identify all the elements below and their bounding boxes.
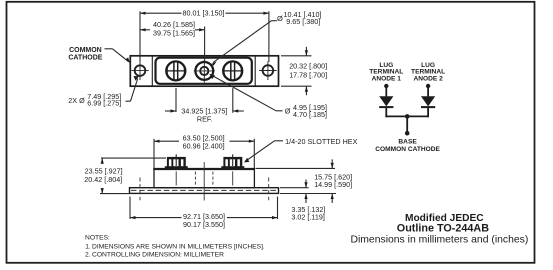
svg-text:20.32 [.800]: 20.32 [.800] xyxy=(289,61,327,70)
wire anode1 to D1 xyxy=(385,86,387,96)
svg-text:90.17 [3.550]: 90.17 [3.550] xyxy=(183,220,225,229)
dimension 34.925 REF xyxy=(165,88,244,113)
dimension 63.50 / 60.96 xyxy=(154,139,254,168)
junction node xyxy=(405,114,410,119)
dimension 15.75 / 14.99 xyxy=(256,159,337,203)
leader 1/4-20 SLOTTED HEX xyxy=(244,141,283,163)
body (side view) xyxy=(154,169,254,188)
center line screw 2 xyxy=(232,171,234,185)
svg-text:Ø: Ø xyxy=(285,107,291,116)
svg-text:2X Ø: 2X Ø xyxy=(68,96,85,105)
base terminal node xyxy=(405,131,410,136)
hidden line center hole left xyxy=(194,172,196,187)
dimension 80.01 [3.150] xyxy=(140,11,269,62)
leader dia 4.95/4.70 to center hole xyxy=(209,74,282,111)
base plate (side view) xyxy=(130,188,279,194)
svg-text:ANODE 2: ANODE 2 xyxy=(413,75,443,82)
hidden line inside base plate xyxy=(131,189,277,191)
svg-text:6.99 [.275]: 6.99 [.275] xyxy=(87,99,121,108)
svg-text:CATHODE: CATHODE xyxy=(68,55,102,62)
terminal node anode 2 xyxy=(426,84,430,88)
package outer body (top view) xyxy=(130,56,278,86)
diode D2 xyxy=(421,96,435,108)
diode D1 xyxy=(379,96,393,108)
svg-text:DIMENSIONS ARE SHOWN IN MILLIM: DIMENSIONS ARE SHOWN IN MILLIMETERS [INC… xyxy=(92,243,265,250)
dimension 3.35 / 3.02 xyxy=(280,180,309,204)
svg-text:COMMON CATHODE: COMMON CATHODE xyxy=(375,146,440,153)
svg-text:BASE: BASE xyxy=(398,139,417,146)
center cathode terminal xyxy=(194,60,215,83)
center line mounting hole right xyxy=(268,178,270,201)
leader 2X dia 7.49/6.99 to left hole xyxy=(126,76,139,101)
wire D2 to bus xyxy=(427,108,429,117)
svg-text:14.99 [.590]: 14.99 [.590] xyxy=(314,180,352,189)
svg-text:1.: 1. xyxy=(85,243,91,250)
svg-text:Outline TO-244AB: Outline TO-244AB xyxy=(397,223,489,235)
svg-text:9.65 [.380]: 9.65 [.380] xyxy=(286,17,320,26)
mounting hole left xyxy=(131,61,148,80)
wire anode2 to D2 xyxy=(427,86,429,96)
hidden line center hole right xyxy=(212,172,214,187)
terminal node anode 1 xyxy=(384,84,388,88)
svg-text:17.78 [.700]: 17.78 [.700] xyxy=(289,70,327,79)
center line package xyxy=(203,162,205,201)
svg-text:NOTES:: NOTES: xyxy=(85,235,110,242)
mounting hole right xyxy=(259,61,276,80)
body top edge thick xyxy=(153,168,255,170)
nut 1 (1/4-20 slotted hex) xyxy=(165,154,188,169)
center line mounting hole left xyxy=(139,178,141,201)
svg-text:REF.: REF. xyxy=(197,114,213,123)
dimension 92.71 / 90.17 xyxy=(130,197,278,220)
svg-text:4.70 [.185]: 4.70 [.185] xyxy=(293,110,327,119)
svg-text:20.42 [.804]: 20.42 [.804] xyxy=(84,175,122,184)
bus wire common cathode xyxy=(385,115,429,117)
dimension 23.55 / 20.42 xyxy=(100,158,166,194)
svg-text:2.: 2. xyxy=(85,252,91,259)
svg-text:80.01 [3.150]: 80.01 [3.150] xyxy=(183,9,225,18)
svg-text:CONTROLLING DIMENSION: MILLIME: CONTROLLING DIMENSION: MILLIMETER xyxy=(92,252,224,259)
svg-text:Ø: Ø xyxy=(277,14,283,23)
svg-text:60.96 [2.400]: 60.96 [2.400] xyxy=(183,142,225,151)
nut 2 (1/4-20 slotted hex) xyxy=(221,154,244,169)
leader common cathode xyxy=(105,49,131,63)
wire to base terminal xyxy=(406,116,408,132)
svg-text:1/4-20 SLOTTED HEX: 1/4-20 SLOTTED HEX xyxy=(285,137,358,146)
leader dia 10.41/9.65 to center terminal xyxy=(212,21,277,66)
screw terminal 1 (slotted) xyxy=(166,61,185,80)
wire D1 to bus xyxy=(385,108,387,117)
svg-text:ANODE 1: ANODE 1 xyxy=(372,75,402,82)
dimension 40.26 / 39.75 xyxy=(140,27,205,63)
svg-text:3.02 [.119]: 3.02 [.119] xyxy=(291,213,324,222)
svg-text:39.75 [1.565]: 39.75 [1.565] xyxy=(153,28,195,37)
center line screw 1 xyxy=(175,171,177,185)
svg-text:COMMON: COMMON xyxy=(69,47,102,54)
dimension 20.32 / 17.78 xyxy=(281,47,312,95)
svg-text:Dimensions in millimeters and: Dimensions in millimeters and (inches) xyxy=(350,234,528,245)
screw terminal 2 (slotted) xyxy=(223,61,242,80)
